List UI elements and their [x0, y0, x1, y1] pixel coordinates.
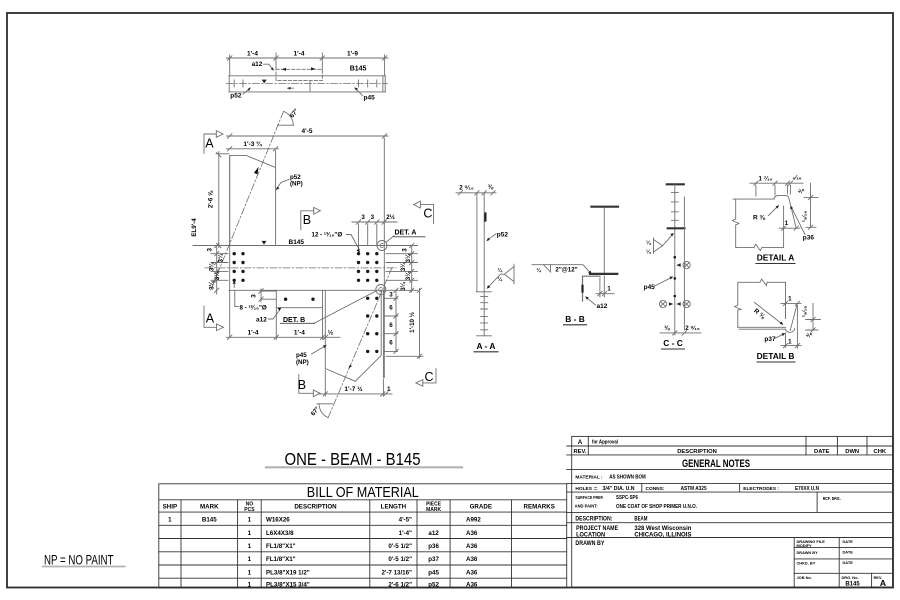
svg-text:1: 1	[248, 581, 252, 588]
svg-text:2'-7 13/16": 2'-7 13/16"	[381, 569, 412, 576]
dim 1 (B-B)	[596, 276, 614, 297]
svg-text:p36: p36	[803, 235, 815, 242]
beam B145 elevation outline	[229, 156, 385, 338]
svg-text:2'-6 1/2": 2'-6 1/2"	[388, 581, 412, 588]
right bolt row dimensions	[386, 243, 418, 292]
svg-text:p52: p52	[230, 93, 242, 100]
svg-text:MATERIAL :: MATERIAL :	[575, 474, 603, 480]
svg-text:3: 3	[371, 214, 375, 221]
svg-text:3: 3	[402, 248, 409, 252]
svg-text:3¼: 3¼	[209, 280, 216, 289]
a12 bolts	[284, 298, 315, 301]
top right dim 3 3 2-1/2	[352, 220, 397, 252]
svg-text:2'-6 ⅝: 2'-6 ⅝	[208, 190, 215, 208]
svg-text:GRADE: GRADE	[470, 504, 492, 511]
angle a12 hidden outline (plan)	[276, 69, 322, 80]
svg-text:DETAIL B: DETAIL B	[757, 351, 795, 361]
bottom dim 1'-7 1/2 and 1	[318, 370, 392, 396]
svg-text:B - B: B - B	[565, 314, 585, 324]
bottom flange (B-B)	[590, 273, 617, 275]
svg-text:DRAWN BY: DRAWN BY	[797, 550, 819, 555]
beam outline with breaks (detail B)	[735, 279, 786, 327]
BOM outer box and grid	[159, 484, 567, 588]
svg-text:DATE: DATE	[843, 539, 854, 544]
section marker C (bottom)	[416, 369, 436, 387]
svg-text:C: C	[425, 370, 434, 384]
bolts on p45 below beam (2x4)	[366, 297, 378, 354]
svg-text:1 ⁷⁄₁₆: 1 ⁷⁄₁₆	[758, 175, 772, 182]
svg-text:3: 3	[389, 292, 393, 299]
svg-text:BILL OF MATERIAL: BILL OF MATERIAL	[307, 485, 419, 501]
plate p36 bump (detail A)	[774, 195, 789, 199]
cope vertical edge (detail A)	[783, 206, 785, 247]
svg-text:DIA. U.N: DIA. U.N	[614, 486, 635, 492]
svg-text:3: 3	[251, 294, 258, 298]
svg-text:FL1/8"X1": FL1/8"X1"	[266, 543, 296, 550]
svg-text:p52: p52	[497, 232, 509, 239]
svg-text:GENERAL NOTES: GENERAL NOTES	[682, 458, 750, 470]
svg-text:B145: B145	[289, 239, 305, 246]
svg-text:DRAWN BY: DRAWN BY	[575, 541, 604, 547]
svg-text:RCF. DRG.: RCF. DRG.	[823, 496, 841, 502]
work line 67 deg (lower dash-dot diagonal)	[328, 268, 392, 419]
bolt group left (2x4)	[233, 252, 245, 282]
svg-text:8 - ¹³⁄₁₆"Ø: 8 - ¹³⁄₁₆"Ø	[240, 304, 267, 311]
svg-text:REMARKS: REMARKS	[524, 504, 555, 511]
right dims 15/16 and 3/8 (detail B)	[806, 303, 821, 332]
svg-text:A: A	[880, 578, 886, 588]
hidden edge arrows (plan)	[282, 67, 316, 71]
svg-text:PL3/8"X15 3/4": PL3/8"X15 3/4"	[266, 581, 310, 588]
svg-text:A36: A36	[466, 569, 478, 576]
svg-text:for Approval: for Approval	[592, 440, 618, 446]
svg-text:3¼: 3¼	[400, 262, 407, 271]
svg-text:1: 1	[248, 569, 252, 576]
svg-text:LOCATION: LOCATION	[576, 533, 605, 539]
svg-text:C: C	[423, 207, 432, 221]
bolt tick rows (A-A)	[481, 296, 488, 329]
svg-text:¼: ¼	[646, 249, 651, 256]
svg-text:¹₅⁄₁₆: ¹₅⁄₁₆	[802, 306, 809, 317]
svg-text:C - C: C - C	[663, 338, 683, 348]
svg-text:DRG. No.: DRG. No.	[842, 575, 859, 580]
svg-text:1: 1	[168, 517, 172, 524]
svg-text:3¼: 3¼	[209, 262, 216, 271]
dims 1 7/16 and 5/16 (detail A)	[750, 181, 803, 196]
header row REV/DESCRIPTION/DATE/DWN/CHK	[574, 449, 887, 455]
svg-text:p45: p45	[364, 94, 376, 101]
BOM headers	[163, 502, 555, 513]
angle a12 (B-B)	[583, 276, 601, 301]
top flange (B-B)	[591, 206, 618, 208]
svg-text:ONE COAT OF SHOP PRIMER U.N.O.: ONE COAT OF SHOP PRIMER U.N.O.	[616, 504, 697, 510]
dimension line 1'-4 / 1'-4 / 1'-9 (plan)	[227, 53, 389, 76]
label 8 - 13/16 dia with leader	[235, 291, 239, 307]
small arrow (plan)	[288, 87, 294, 89]
svg-text:₅⁄₁₆: ₅⁄₁₆	[792, 175, 801, 182]
detail B circle	[376, 285, 386, 295]
svg-text:A992: A992	[466, 517, 481, 524]
svg-text:1'-3 ¾: 1'-3 ¾	[243, 140, 262, 148]
flange cut slant (detail A)	[789, 200, 796, 229]
svg-text:B: B	[298, 378, 306, 392]
extension line right (4'-5 to beam corner)	[383, 138, 385, 378]
svg-text:SHIP: SHIP	[163, 504, 177, 511]
angle 67 deg arc (top)	[278, 111, 294, 125]
flange lines (A-A)	[477, 292, 492, 336]
beam plan centerline	[227, 82, 388, 84]
svg-text:p52: p52	[428, 581, 439, 588]
svg-text:p45: p45	[428, 569, 439, 576]
svg-text:CHICAGO, ILLINOIS: CHICAGO, ILLINOIS	[634, 532, 692, 539]
svg-text:3¼: 3¼	[214, 271, 221, 280]
svg-text:1'-9: 1'-9	[347, 50, 358, 57]
svg-text:(NP): (NP)	[290, 181, 303, 188]
svg-text:1'-7 ½: 1'-7 ½	[344, 385, 363, 393]
mini table	[797, 539, 883, 580]
svg-text:B145: B145	[202, 517, 217, 524]
svg-text:3¼: 3¼	[405, 253, 412, 262]
NP = NO PAINT note	[43, 566, 125, 568]
title block grid	[567, 436, 893, 587]
svg-text:⅜: ⅜	[664, 325, 670, 332]
detail A circle	[377, 241, 387, 251]
svg-text:ASTM A325: ASTM A325	[681, 486, 707, 492]
svg-text:1: 1	[785, 220, 789, 227]
section marker C (top)	[414, 201, 434, 223]
holes row	[575, 486, 819, 492]
top flange (C-C)	[667, 183, 684, 185]
svg-text:L6X4X3/8: L6X4X3/8	[266, 530, 294, 537]
svg-text:1: 1	[788, 296, 792, 303]
dim 1 top (detail B)	[781, 301, 801, 348]
main title ONE - BEAM - B145	[266, 466, 462, 468]
bolt group right (3x4)	[357, 252, 379, 282]
svg-text:2 ⁹⁄₁₆: 2 ⁹⁄₁₆	[459, 185, 474, 192]
svg-text:a12: a12	[428, 530, 439, 537]
section marker A (top)	[204, 131, 223, 154]
field bolt circles row2 (C-C)	[659, 300, 690, 307]
svg-text:3: 3	[361, 214, 365, 221]
svg-text:REV.: REV.	[574, 449, 587, 455]
svg-text:3: 3	[207, 248, 214, 252]
svg-text:MARK: MARK	[200, 504, 219, 511]
break lines (detail A)	[733, 199, 784, 251]
svg-text:DET. A: DET. A	[395, 230, 417, 237]
plate p45 outline (elevation)	[325, 290, 383, 381]
svg-text:¼: ¼	[498, 267, 503, 274]
bolt dots on line (C-C)	[674, 256, 677, 297]
svg-text:a12: a12	[256, 317, 267, 324]
svg-text:A36: A36	[466, 581, 478, 588]
svg-text:BEAM: BEAM	[634, 516, 647, 522]
svg-text:⅜: ⅜	[488, 184, 494, 191]
bolt ticks (C-C)	[671, 193, 678, 221]
svg-text:1: 1	[248, 517, 252, 524]
svg-text:R ⅜: R ⅜	[753, 215, 766, 222]
svg-text:DATE: DATE	[814, 449, 829, 455]
svg-text:a12: a12	[597, 303, 608, 310]
svg-text:PROJECT NAME: PROJECT NAME	[576, 526, 618, 532]
plate p37 line (detail B)	[739, 328, 786, 330]
plate p37 hook (detail B)	[786, 328, 795, 332]
svg-text:PL3/8"X19 1/2": PL3/8"X19 1/2"	[266, 569, 310, 576]
svg-text:B145: B145	[350, 65, 367, 72]
svg-text:A - A: A - A	[477, 341, 496, 351]
svg-text:A36: A36	[466, 543, 478, 550]
flange cut slant (detail B)	[790, 304, 797, 331]
svg-text:A: A	[205, 136, 214, 150]
svg-text:SURFACE PREP.: SURFACE PREP.	[575, 495, 603, 501]
weld symbol 1/4 1/4 (C-C)	[654, 235, 673, 254]
mini dim 3 at a12	[259, 289, 276, 302]
svg-text:1: 1	[248, 530, 252, 537]
dim 1 (detail A)	[779, 226, 800, 230]
svg-text:E70XX U.N: E70XX U.N	[795, 486, 819, 492]
weld tick (A-A)	[484, 214, 486, 221]
svg-text:3¼: 3¼	[400, 281, 407, 290]
svg-text:1: 1	[248, 543, 252, 550]
svg-text:¼: ¼	[498, 276, 503, 283]
svg-text:¹₅⁄₁₆: ¹₅⁄₁₆	[802, 211, 809, 222]
svg-text:SSPC-SP6: SSPC-SP6	[616, 495, 638, 501]
svg-text:DESCRIPTION: DESCRIPTION	[677, 449, 717, 455]
svg-text:HOLES :: HOLES :	[575, 486, 595, 492]
svg-text:A: A	[206, 312, 215, 326]
svg-text:p45: p45	[644, 284, 656, 291]
svg-text:A: A	[578, 439, 583, 446]
svg-text:B: B	[303, 213, 311, 227]
svg-text:(NP): (NP)	[296, 359, 309, 366]
svg-text:0'-5 1/2": 0'-5 1/2"	[388, 543, 412, 550]
svg-text:6: 6	[389, 305, 393, 312]
svg-text:AS SHOWN BOM: AS SHOWN BOM	[609, 475, 646, 481]
work line 67 deg (upper dash-dot diagonal)	[210, 112, 284, 293]
plate p52 edge view (A-A)	[483, 194, 485, 336]
svg-text:W16X26: W16X26	[266, 517, 290, 524]
BOM rows	[168, 517, 481, 589]
svg-text:2"@12": 2"@12"	[555, 267, 577, 274]
section marker B (bottom)	[299, 375, 320, 397]
svg-text:3/4": 3/4"	[603, 486, 613, 492]
svg-text:4'-5: 4'-5	[302, 128, 313, 135]
svg-text:CHKD. BY: CHKD. BY	[797, 560, 816, 565]
svg-text:=: =	[595, 487, 598, 492]
dim 1'-3 3/4	[227, 147, 279, 167]
web line (C-C)	[674, 184, 676, 335]
svg-text:DWN: DWN	[845, 449, 859, 455]
section marker B (top)	[301, 207, 321, 229]
svg-text:FL1/8"X1": FL1/8"X1"	[266, 556, 296, 563]
svg-text:2 ⁹⁄₁₆: 2 ⁹⁄₁₆	[685, 325, 700, 332]
svg-text:1'-4: 1'-4	[247, 50, 258, 57]
edge line (C-C)	[683, 197, 685, 330]
svg-text:B145: B145	[845, 581, 860, 587]
dim 2 9/16 and 3/8 (A-A)	[456, 191, 496, 195]
dim 1 bottom (detail B)	[781, 333, 801, 348]
angle a12 (elevation)	[276, 290, 322, 307]
DET. B label with leader	[314, 291, 376, 324]
svg-text:AND PAINT:: AND PAINT:	[575, 504, 598, 510]
dim 1'-10 1/2	[386, 288, 423, 358]
svg-text:p37: p37	[428, 556, 439, 563]
svg-text:1: 1	[248, 556, 252, 563]
svg-text:ELECTRODES :: ELECTRODES :	[743, 486, 779, 492]
dim 1'-4 / 1'-4 / 1/2 (below)	[227, 308, 341, 340]
vertical dim 2'-6 5/8	[216, 152, 229, 248]
dim 4'-5	[227, 134, 389, 138]
web (B-B)	[603, 208, 605, 274]
svg-text:2½: 2½	[386, 214, 395, 221]
beam B145 plan outline	[229, 76, 386, 92]
svg-text:DESCRIPTION: DESCRIPTION	[294, 504, 337, 511]
svg-text:DETAIL A: DETAIL A	[757, 253, 795, 263]
dims 3/6/6/6 below beam	[385, 288, 399, 354]
svg-text:CHK: CHK	[874, 449, 887, 455]
svg-text:EL9'-4: EL9'-4	[191, 218, 198, 237]
svg-text:MODIFY: MODIFY	[797, 543, 813, 548]
svg-text:¼: ¼	[646, 240, 651, 247]
weld symbol 1/4 1/4 (A-A)	[488, 264, 514, 287]
svg-text:½: ½	[328, 328, 334, 336]
angle 67 deg arc (bottom)	[317, 404, 333, 418]
svg-text:PCS: PCS	[244, 507, 255, 513]
beam centerline (elevation)	[205, 267, 397, 269]
svg-text:NP = NO PAINT: NP = NO PAINT	[44, 552, 114, 567]
svg-text:3¼: 3¼	[405, 271, 412, 280]
bolt gauge ticks (plan)	[234, 80, 377, 91]
svg-text:1'-4: 1'-4	[294, 50, 305, 57]
plate p52 outline (elevation)	[230, 156, 276, 246]
svg-text:0'-5 1/2": 0'-5 1/2"	[388, 556, 412, 563]
EL9'-4 level	[193, 245, 230, 247]
svg-text:LENGTH: LENGTH	[381, 504, 407, 511]
svg-text:1: 1	[387, 386, 391, 393]
weld mark on top flange	[262, 241, 267, 245]
field bolt circle row1 (C-C)	[683, 262, 690, 269]
svg-text:p37: p37	[764, 336, 776, 343]
up arrow mark at left bolt	[233, 282, 235, 288]
svg-text:4'-5": 4'-5"	[399, 517, 412, 524]
svg-text:DATE: DATE	[843, 560, 854, 565]
svg-text:1'-10 ½: 1'-10 ½	[409, 312, 416, 333]
beam top edge (detail A)	[733, 198, 774, 200]
svg-text:p36: p36	[428, 543, 439, 550]
svg-text:6: 6	[389, 340, 393, 347]
right dims 3/8 and 15/16 (detail A)	[804, 183, 818, 229]
svg-text:ONE - BEAM - B145: ONE - BEAM - B145	[285, 449, 421, 469]
beam web edge (A-A)	[476, 194, 478, 292]
section marker A (bottom)	[204, 306, 224, 331]
svg-text:1'-4: 1'-4	[294, 329, 305, 336]
left bolt row dimensions 3 / 3-1/4	[211, 243, 228, 294]
surface prep rows	[575, 495, 841, 510]
svg-text:3¼: 3¼	[218, 253, 225, 262]
svg-text:¼: ¼	[536, 267, 541, 274]
svg-text:CONNS:: CONNS:	[646, 486, 665, 492]
svg-text:6: 6	[389, 322, 393, 329]
bottom flange (C-C)	[668, 227, 685, 229]
svg-text:a12: a12	[252, 61, 263, 68]
svg-text:JOB No.: JOB No.	[797, 575, 812, 580]
weld symbol 1/4 2"@12" (B-B)	[532, 265, 590, 273]
bottom dims 3/8 and 2 9/16 (C-C)	[660, 331, 701, 335]
svg-text:1: 1	[788, 338, 792, 345]
svg-text:A36: A36	[466, 556, 478, 563]
svg-text:A36: A36	[466, 530, 478, 537]
svg-text:MARK: MARK	[426, 507, 441, 513]
weld mark (plan)	[262, 80, 267, 84]
svg-text:1'-4": 1'-4"	[399, 530, 412, 537]
weld tick (B-B)	[581, 286, 583, 292]
DET. A label with leader	[386, 236, 394, 243]
svg-text:12 - ¹³⁄₁₆"Ø: 12 - ¹³⁄₁₆"Ø	[312, 232, 343, 239]
svg-text:1: 1	[607, 286, 611, 293]
svg-text:DESCRIPTION:: DESCRIPTION:	[575, 515, 612, 522]
svg-text:DATE: DATE	[843, 549, 854, 554]
svg-text:1'-4: 1'-4	[248, 329, 259, 336]
